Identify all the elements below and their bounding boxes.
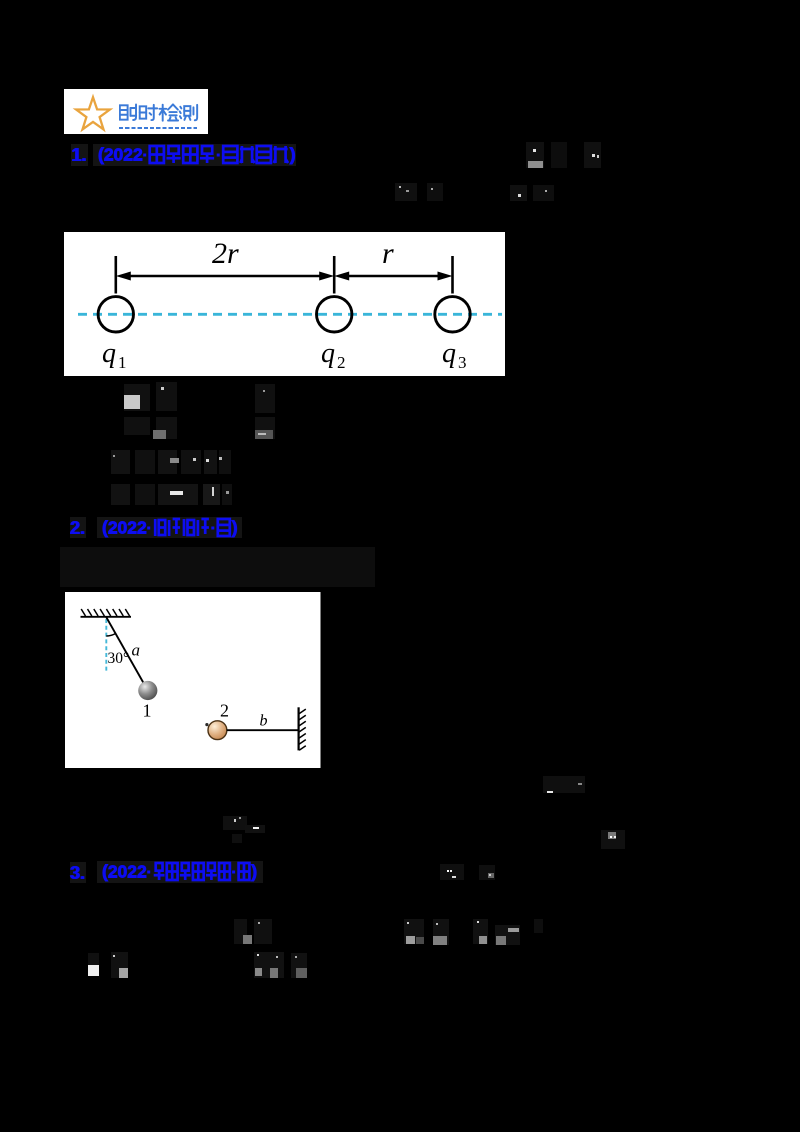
string a bbox=[106, 617, 148, 690]
Q1 source tag bbox=[93, 144, 296, 166]
svg-text:q: q bbox=[102, 338, 116, 369]
faint option row D bbox=[111, 484, 130, 505]
tick q1 bbox=[114, 256, 117, 294]
star icon bbox=[64, 89, 209, 135]
svg-text:): ) bbox=[231, 517, 237, 537]
faint formula row (q = ...) bbox=[234, 919, 248, 944]
svg-text:2r: 2r bbox=[212, 237, 239, 270]
arrow r bbox=[347, 274, 439, 276]
svg-text:3: 3 bbox=[458, 353, 467, 372]
faint fragment after g value bbox=[543, 776, 585, 793]
svg-text:(2022: (2022 bbox=[98, 145, 143, 165]
svg-text:q: q bbox=[321, 338, 335, 369]
svg-text:r: r bbox=[382, 237, 394, 270]
Q1 number block bbox=[71, 144, 88, 166]
angle arc bbox=[106, 634, 115, 637]
arrow 2r bbox=[129, 274, 321, 276]
svg-text:): ) bbox=[289, 145, 295, 165]
header dashed underline bbox=[119, 127, 197, 130]
header title 即时检测 bbox=[119, 103, 199, 123]
faint formula row 1 right bbox=[526, 142, 544, 168]
svg-text:): ) bbox=[251, 862, 257, 882]
Q3 source tag bbox=[97, 861, 263, 883]
svg-text:2: 2 bbox=[220, 701, 229, 721]
svg-text:1: 1 bbox=[118, 353, 127, 372]
svg-text:a: a bbox=[132, 641, 141, 660]
ball 1 bbox=[138, 681, 157, 700]
svg-text:(2022: (2022 bbox=[102, 862, 147, 882]
wall hatches bbox=[299, 709, 306, 750]
svg-text:b: b bbox=[260, 713, 268, 730]
faint formula row 2 bbox=[395, 183, 417, 201]
faint option row B bbox=[124, 417, 150, 435]
faint fragment right bbox=[601, 830, 625, 849]
vertical dashed reference bbox=[105, 619, 107, 672]
header white box bbox=[64, 89, 209, 135]
charge q1 bbox=[98, 296, 133, 331]
svg-text:1: 1 bbox=[143, 701, 152, 721]
faint fraction fragment bbox=[223, 816, 247, 830]
faint option row A bbox=[124, 384, 150, 411]
svg-text:q: q bbox=[442, 338, 456, 369]
svg-text:2: 2 bbox=[337, 353, 346, 372]
charge q3 bbox=[434, 296, 469, 331]
wall line bbox=[298, 707, 300, 750]
svg-text:(2022: (2022 bbox=[102, 517, 147, 537]
ceiling hatches bbox=[81, 609, 129, 616]
faint fragments right of Q3 bbox=[440, 864, 464, 881]
tick q2 bbox=[332, 256, 335, 294]
ceiling line bbox=[81, 616, 132, 618]
faint formula row (F = ... with white box) bbox=[88, 953, 99, 976]
Q2 source tag bbox=[97, 517, 242, 539]
charge q2 bbox=[316, 296, 351, 331]
Q2 number block bbox=[70, 517, 86, 538]
faint option row C bbox=[111, 450, 130, 474]
Q3 number block bbox=[70, 862, 86, 883]
string b bbox=[227, 729, 299, 731]
dashed axis line bbox=[78, 312, 502, 315]
svg-text:30°: 30° bbox=[108, 650, 130, 667]
ball 2 bbox=[208, 721, 227, 740]
dark paragraph band bbox=[60, 547, 375, 587]
tick q3 bbox=[451, 256, 454, 294]
